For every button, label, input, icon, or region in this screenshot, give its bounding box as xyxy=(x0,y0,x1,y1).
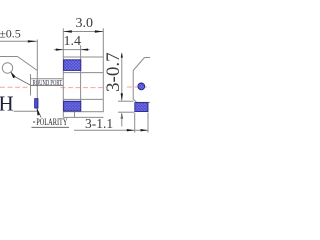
svg-text:H: H xyxy=(0,92,14,116)
bottom pad xyxy=(64,101,81,111)
svg-text:3.0: 3.0 xyxy=(76,16,94,31)
svg-text:POLARITY: POLARITY xyxy=(36,117,68,127)
round port circle xyxy=(2,63,12,73)
POLARITY underline xyxy=(32,126,70,128)
right view circle (blue) xyxy=(138,83,145,90)
internal line bottom xyxy=(63,98,103,100)
body bottom edge xyxy=(137,101,150,103)
internal vertical line xyxy=(80,57,82,112)
ext line B (pad bottom) xyxy=(118,111,134,113)
centerline (pink) left view xyxy=(0,86,31,88)
ext line A (body bottom) xyxy=(118,100,134,102)
left edge xyxy=(132,71,134,100)
right view body xyxy=(133,58,150,103)
svg-text:±0.5: ±0.5 xyxy=(0,26,21,40)
ext lines 3.0 xyxy=(62,28,64,57)
body rect xyxy=(63,57,103,112)
top pad xyxy=(64,60,81,71)
left view body outline xyxy=(0,40,37,112)
bottom chamfer xyxy=(133,99,136,102)
small up arrow below B xyxy=(121,112,123,118)
below-rect extension lines xyxy=(62,112,64,118)
dim line ±0.5 xyxy=(0,40,37,42)
ext line 1.4 right xyxy=(80,45,82,57)
dim line 3-0.7 xyxy=(121,53,123,101)
internal line top xyxy=(63,72,103,74)
ext lines 3-1.1 xyxy=(134,113,136,133)
svg-text:3-0.7: 3-0.7 xyxy=(103,52,124,92)
middle view (bottom view) xyxy=(63,57,103,112)
right view pad xyxy=(135,103,148,112)
arrow ±0.5 xyxy=(28,40,38,42)
top edge xyxy=(0,56,18,58)
leader arrow to ROUND PORT xyxy=(10,71,16,78)
ROUND PORT label box xyxy=(30,74,32,96)
svg-text:3-1.1: 3-1.1 xyxy=(85,116,113,131)
right edge xyxy=(36,40,38,112)
chamfer xyxy=(133,58,144,71)
top edge xyxy=(145,57,151,59)
chamfer xyxy=(18,57,38,71)
bottom edge xyxy=(14,110,38,112)
centerline (pink) middle view xyxy=(61,87,108,89)
svg-text:ROUND PORT: ROUND PORT xyxy=(33,79,63,87)
polarity leader arrow xyxy=(37,107,41,115)
POLARITY label xyxy=(33,121,35,123)
polarity mark (blue bar) xyxy=(35,99,38,108)
svg-text:1.4: 1.4 xyxy=(64,34,82,49)
centerline (pink) right view xyxy=(127,86,150,88)
